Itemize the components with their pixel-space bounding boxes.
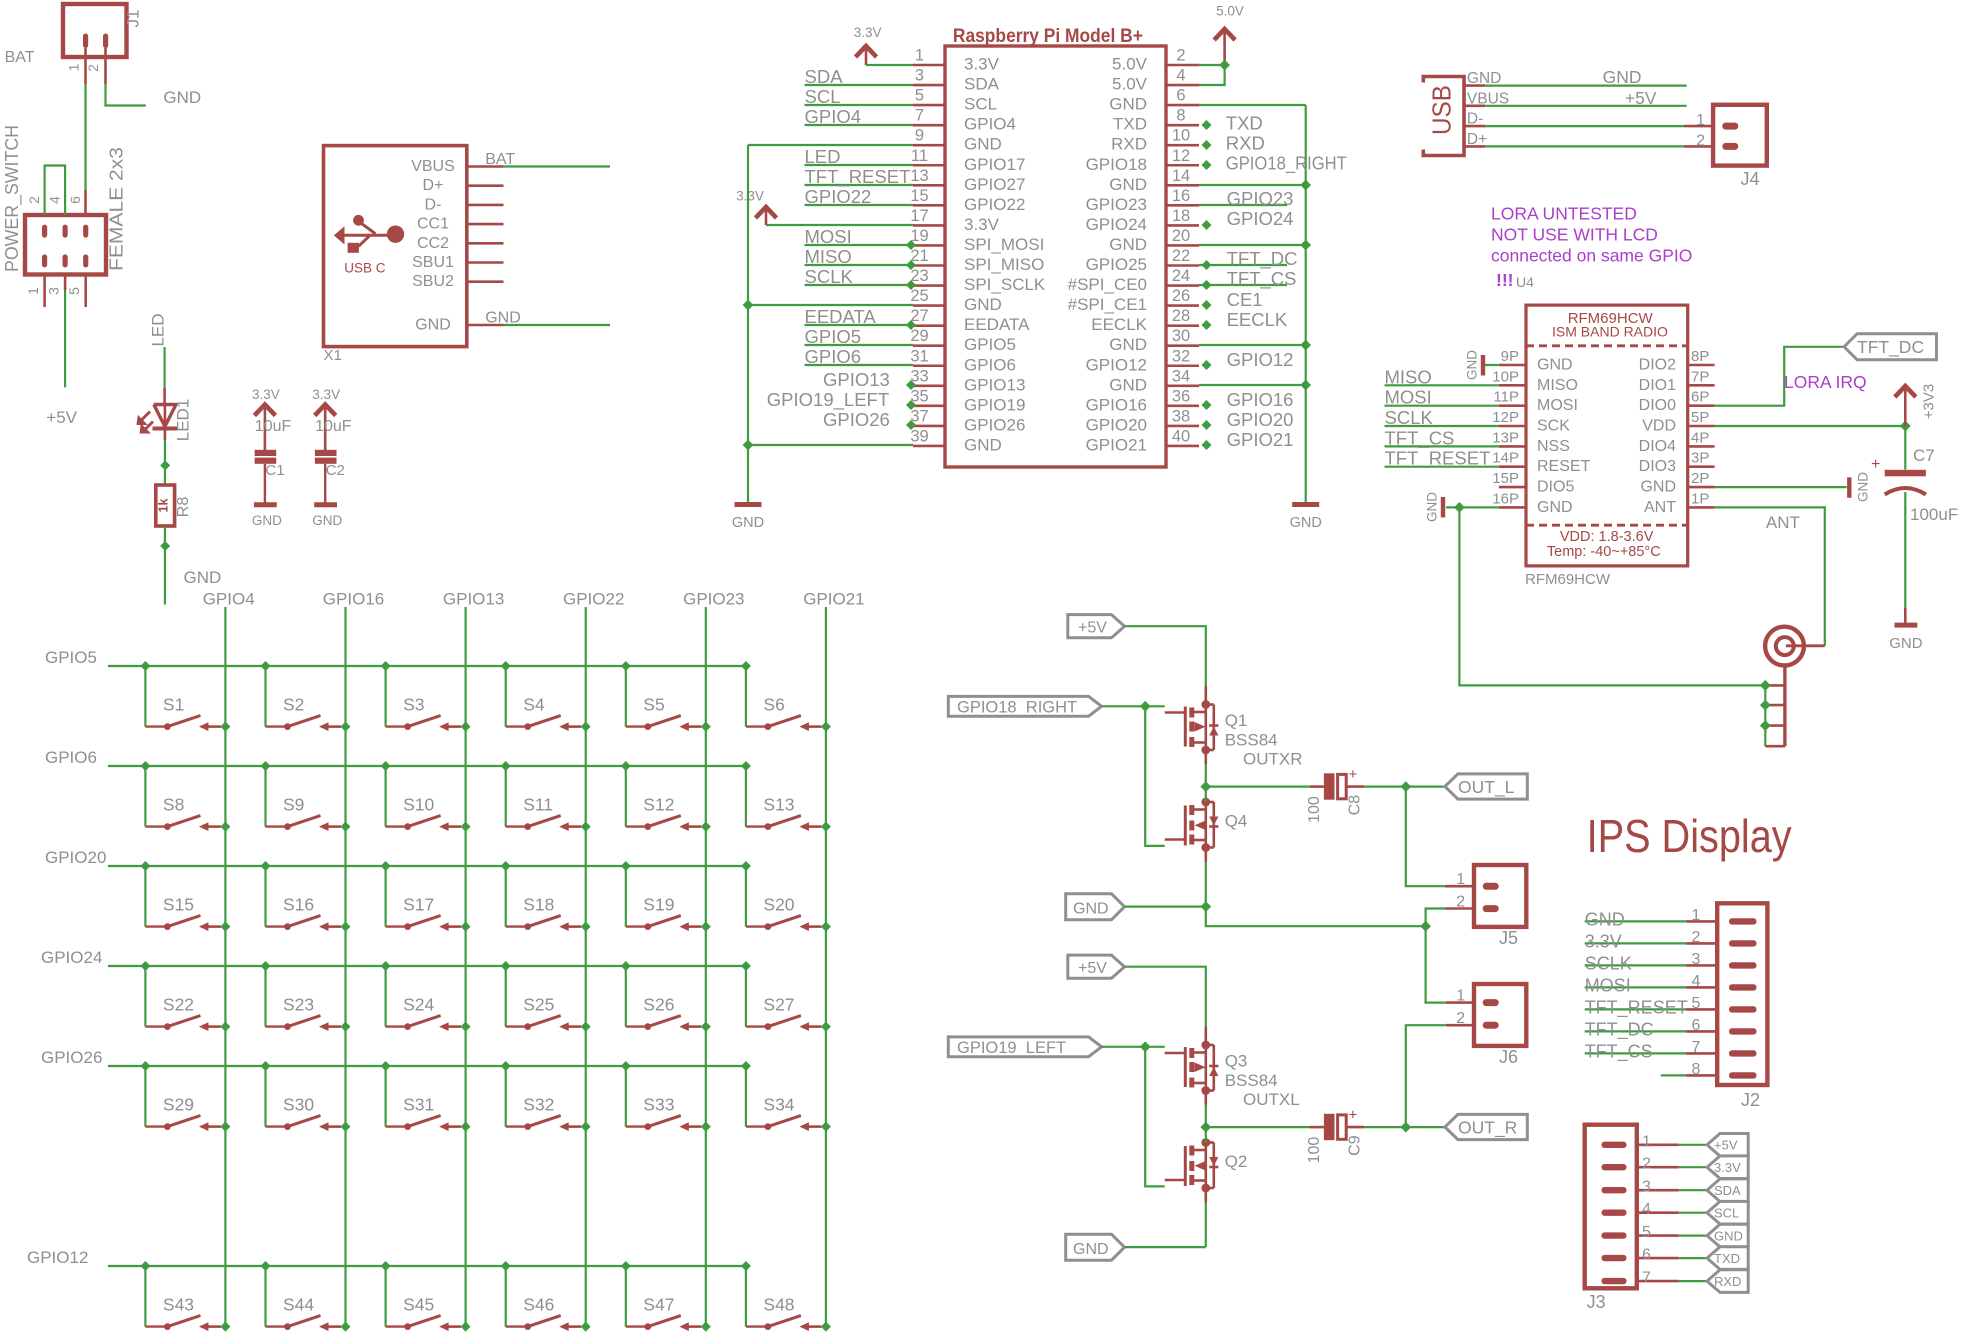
- wire U4 ANT to antenna: [1715, 507, 1825, 645]
- svg-text:S19: S19: [643, 895, 674, 915]
- svg-text:1: 1: [1691, 907, 1700, 924]
- pin J2-6: [1585, 1017, 1718, 1041]
- svg-text:3.3V: 3.3V: [964, 55, 1000, 74]
- svg-text:NOT USE WITH LCD: NOT USE WITH LCD: [1491, 225, 1658, 245]
- pin X1 SBU2: [412, 273, 503, 290]
- wire Q2 source down: [1205, 1188, 1208, 1247]
- wire USB VBUS to +5V: [1485, 88, 1687, 108]
- svg-text:VDD: VDD: [1642, 418, 1676, 435]
- svg-text:GND: GND: [1290, 515, 1322, 531]
- ground at U4 pin 16P: [1425, 492, 1499, 522]
- wire J5 pin2 branch: [1426, 909, 1445, 927]
- svg-text:GND: GND: [964, 295, 1002, 314]
- svg-text:RXD: RXD: [1714, 1274, 1741, 1289]
- svg-text:8P: 8P: [1691, 348, 1709, 365]
- svg-text:GPIO6: GPIO6: [45, 748, 97, 767]
- svg-text:LED1: LED1: [173, 399, 192, 442]
- svg-text:S47: S47: [643, 1295, 674, 1315]
- net label GND at J1: [163, 88, 201, 107]
- wire column GPIO4: [203, 590, 255, 1327]
- pin 3 RPi left: [913, 67, 1000, 94]
- svg-text:GND: GND: [964, 135, 1002, 154]
- ground at C2: [312, 505, 342, 528]
- wire RPi pin9 GND to left bus: [748, 144, 913, 146]
- pin 1 RPi left: [913, 47, 1000, 74]
- svg-text:2: 2: [1176, 47, 1185, 65]
- pin U4 14P RESET: [1492, 450, 1590, 476]
- wire RPi GND pin to right bus: [1199, 384, 1306, 386]
- svg-text:BAT: BAT: [5, 49, 35, 66]
- connector J4: [1696, 105, 1767, 189]
- junction on RPi left pin: [906, 260, 916, 270]
- svg-text:GPIO16: GPIO16: [323, 590, 384, 609]
- wire +5V to Q1: [1125, 626, 1206, 686]
- text IPS Display title: [1587, 810, 1792, 862]
- svg-text:S6: S6: [763, 695, 784, 715]
- xref flag +5V at J3: [1707, 1134, 1748, 1157]
- wire U4 VDD to +3V3: [1715, 421, 1911, 432]
- svg-text:LORA UNTESTED: LORA UNTESTED: [1491, 204, 1637, 224]
- pin U4 16P GND: [1492, 490, 1572, 516]
- svg-text:+3V3: +3V3: [1920, 384, 1937, 419]
- svg-text:S23: S23: [283, 995, 314, 1015]
- svg-text:3.3V: 3.3V: [1714, 1160, 1741, 1175]
- svg-text:2: 2: [1456, 1010, 1465, 1027]
- wire J6 pin1 branch: [1426, 926, 1446, 1002]
- svg-text:S26: S26: [643, 995, 674, 1015]
- wire+net label MISO U4: [1385, 366, 1499, 387]
- pin 8 RPi right: [1113, 107, 1199, 134]
- switch S29: [140, 1061, 230, 1132]
- switch S30: [261, 1061, 351, 1132]
- svg-text:2P: 2P: [1691, 470, 1709, 487]
- pin 27 RPi left: [910, 307, 1030, 334]
- wire OUT_L to J5 pin1: [1406, 787, 1445, 887]
- svg-text:100uF: 100uF: [1910, 505, 1958, 524]
- svg-text:GPIO13: GPIO13: [964, 375, 1025, 394]
- svg-text:S8: S8: [163, 795, 184, 815]
- svg-text:GPIO19_LEFT: GPIO19_LEFT: [767, 389, 889, 411]
- net label +5V: [46, 408, 77, 427]
- svg-text:GPIO27: GPIO27: [964, 175, 1025, 194]
- svg-text:LED: LED: [805, 146, 841, 167]
- svg-text:BSS84: BSS84: [1225, 731, 1278, 750]
- svg-text:5: 5: [66, 287, 82, 295]
- svg-text:USB C: USB C: [344, 261, 386, 276]
- svg-text:7: 7: [1691, 1039, 1700, 1056]
- svg-text:S34: S34: [763, 1095, 794, 1115]
- svg-text:SDA: SDA: [1714, 1183, 1741, 1198]
- pin X1 D-: [425, 196, 504, 213]
- svg-text:GPIO4: GPIO4: [203, 590, 255, 609]
- svg-text:9P: 9P: [1501, 348, 1519, 365]
- pin 38 RPi right: [1086, 407, 1199, 434]
- svg-text:TXD: TXD: [1714, 1251, 1740, 1266]
- svg-text:GND: GND: [1109, 175, 1147, 194]
- svg-text:SCLK: SCLK: [1385, 407, 1434, 428]
- svg-text:+: +: [1349, 766, 1358, 783]
- ground at C1: [252, 505, 282, 528]
- svg-text:7P: 7P: [1691, 368, 1709, 385]
- wire+net label SDA RPi left: [805, 66, 914, 87]
- pin U4 12P SCK: [1492, 409, 1570, 435]
- pin 9 RPi left: [913, 127, 1002, 154]
- switch S4: [501, 661, 591, 732]
- label Q1: [1225, 711, 1303, 769]
- svg-text:GPIO22: GPIO22: [563, 590, 624, 609]
- svg-text:GND: GND: [485, 310, 521, 327]
- svg-text:TFT_DC: TFT_DC: [1857, 337, 1924, 358]
- svg-text:2: 2: [1696, 132, 1705, 149]
- svg-text:GPIO22: GPIO22: [964, 195, 1025, 214]
- svg-text:C7: C7: [1913, 446, 1935, 465]
- switch S3: [381, 661, 471, 732]
- pin X1 GND: [415, 317, 503, 334]
- net label GPIO20 RPi right: [1227, 409, 1294, 430]
- svg-text:2: 2: [1691, 929, 1700, 946]
- svg-text:RXD: RXD: [1226, 133, 1265, 154]
- svg-text:Q1: Q1: [1225, 711, 1248, 730]
- LED LED1: [137, 399, 193, 442]
- svg-text:SBU2: SBU2: [412, 273, 454, 290]
- svg-text:S15: S15: [163, 895, 194, 915]
- wire GND node down-right to J5/J6: [1206, 907, 1426, 927]
- svg-text:GPIO4: GPIO4: [964, 115, 1016, 134]
- svg-text:TFT_CS: TFT_CS: [1385, 427, 1455, 449]
- svg-text:10: 10: [1172, 127, 1190, 145]
- svg-text:6P: 6P: [1691, 389, 1709, 406]
- svg-text:TFT_CS: TFT_CS: [1227, 268, 1297, 290]
- svg-text:GPIO16: GPIO16: [1086, 395, 1147, 414]
- svg-text:2: 2: [26, 196, 42, 204]
- svg-text:1k: 1k: [157, 499, 171, 513]
- pin J2-8: [1661, 1061, 1717, 1078]
- switch S44: [261, 1261, 351, 1332]
- transistor Q3 BSS84: [1165, 1041, 1219, 1095]
- svg-text:28: 28: [1172, 307, 1190, 325]
- wire+net label TFT_CS U4: [1385, 427, 1499, 449]
- svg-text:RESET: RESET: [1537, 458, 1591, 475]
- pin J3-1 to +5V flag: [1637, 1133, 1707, 1150]
- wire +5V to Q3: [1125, 967, 1206, 1027]
- svg-text:OUT_R: OUT_R: [1458, 1118, 1517, 1139]
- svg-text:GND: GND: [1073, 900, 1109, 917]
- capacitor C1: [255, 418, 292, 503]
- svg-text:10P: 10P: [1492, 368, 1519, 385]
- svg-text:S30: S30: [283, 1095, 314, 1115]
- wire+net label EEDATA RPi left: [805, 306, 914, 327]
- junction at RPi right pin: [1202, 280, 1212, 290]
- net label GND below R8: [184, 568, 222, 587]
- svg-text:TXD: TXD: [1226, 113, 1263, 134]
- svg-text:RFM69HCW: RFM69HCW: [1525, 571, 1611, 588]
- net label GPIO26 RPi pin37: [823, 409, 890, 430]
- svg-text:7: 7: [915, 107, 924, 125]
- junction at RPi right pin: [1202, 320, 1212, 330]
- svg-text:TFT_DC: TFT_DC: [1227, 248, 1298, 270]
- wire+net label GPIO6 RPi left: [805, 346, 914, 367]
- svg-text:36: 36: [1172, 387, 1190, 405]
- switch S43: [140, 1261, 230, 1332]
- svg-text:13: 13: [910, 167, 928, 185]
- pin 28 RPi right: [1091, 307, 1199, 334]
- svg-text:3: 3: [46, 287, 62, 295]
- connector USB: [1423, 77, 1464, 156]
- svg-text:SCLK: SCLK: [1585, 953, 1632, 973]
- svg-text:7: 7: [1642, 1270, 1651, 1287]
- svg-text:14P: 14P: [1492, 450, 1519, 467]
- svg-text:1: 1: [1456, 987, 1465, 1004]
- svg-text:C8: C8: [1346, 795, 1363, 816]
- wire RPi pin6 GND to right bus: [1199, 104, 1306, 106]
- svg-text:MOSI: MOSI: [1585, 975, 1631, 995]
- switch S18: [501, 861, 591, 932]
- svg-text:1: 1: [1696, 112, 1705, 129]
- svg-text:9: 9: [915, 127, 924, 145]
- junction at RPi right pin: [1202, 260, 1212, 270]
- svg-text:S16: S16: [283, 895, 314, 915]
- svg-text:GPIO13: GPIO13: [823, 369, 890, 390]
- switch S2: [261, 661, 351, 732]
- svg-text:GND: GND: [1889, 635, 1923, 652]
- ground symbol left of RPi: [732, 505, 764, 532]
- svg-text:22: 22: [1172, 247, 1190, 265]
- svg-text:16P: 16P: [1492, 490, 1519, 507]
- wire+net label GPIO22 RPi left: [805, 186, 914, 207]
- pin J3-5 to GND flag: [1637, 1224, 1707, 1241]
- svg-text:GPIO12: GPIO12: [27, 1248, 88, 1267]
- svg-text:MOSI: MOSI: [1537, 397, 1578, 414]
- svg-text:#SPI_CE1: #SPI_CE1: [1068, 295, 1147, 314]
- svg-text:1: 1: [66, 63, 82, 71]
- svg-text:SDA: SDA: [805, 66, 844, 87]
- switch S34: [741, 1061, 831, 1132]
- pin 26 RPi right: [1068, 287, 1199, 314]
- svg-text:S32: S32: [523, 1095, 554, 1115]
- svg-text:5: 5: [1642, 1224, 1651, 1241]
- svg-text:8: 8: [1176, 107, 1185, 125]
- pin number J1-2: [85, 64, 101, 72]
- pin 24 RPi right: [1068, 267, 1199, 294]
- svg-text:GND: GND: [732, 515, 764, 531]
- svg-text:S43: S43: [163, 1295, 194, 1315]
- svg-text:17: 17: [910, 207, 928, 225]
- wire+net label TFT_RESET RPi left: [805, 166, 914, 188]
- xref flag OUT_R: [1445, 1114, 1527, 1139]
- pin J3-4 to SCL flag: [1637, 1201, 1707, 1218]
- svg-text:GND: GND: [1537, 357, 1573, 374]
- wire column GPIO23: [683, 590, 744, 1327]
- svg-text:U4: U4: [1516, 274, 1534, 290]
- xref flag SDA at J3: [1707, 1179, 1748, 1202]
- svg-text:J6: J6: [1499, 1047, 1518, 1067]
- pin 14 RPi right: [1109, 167, 1199, 194]
- svg-text:C1: C1: [265, 462, 284, 479]
- svg-text:ANT: ANT: [1644, 499, 1676, 516]
- pin 25 RPi left: [910, 287, 1001, 314]
- wire USB D- to J4 pin1: [1485, 125, 1713, 127]
- svg-text:3.3V: 3.3V: [854, 25, 882, 40]
- switch S23: [261, 961, 351, 1032]
- pin 18 RPi right: [1086, 207, 1199, 234]
- svg-text:8: 8: [1691, 1061, 1700, 1078]
- wire C9 to OUT_R: [1346, 1126, 1445, 1129]
- svg-text:34: 34: [1172, 367, 1190, 385]
- svg-text:MOSI: MOSI: [1385, 387, 1432, 408]
- svg-text:GPIO23: GPIO23: [683, 590, 744, 609]
- svg-text:EECLK: EECLK: [1227, 309, 1288, 330]
- wire GND flag to Q4: [1125, 905, 1206, 907]
- svg-text:NSS: NSS: [1537, 438, 1570, 455]
- net label GPIO12 RPi right: [1227, 349, 1294, 370]
- pin U4 13P NSS: [1492, 429, 1570, 455]
- svg-text:S44: S44: [283, 1295, 314, 1315]
- svg-text:VDD: 1.8-3.6V: VDD: 1.8-3.6V: [1560, 529, 1654, 545]
- svg-text:S3: S3: [403, 695, 424, 715]
- net label TFT_CS RPi right: [1199, 268, 1296, 290]
- svg-text:GND: GND: [1714, 1228, 1743, 1243]
- svg-text:SPI_MISO: SPI_MISO: [964, 255, 1044, 274]
- pin J2-3: [1585, 951, 1718, 974]
- svg-text:DIO3: DIO3: [1639, 458, 1676, 475]
- pin 2 RPi right: [1112, 47, 1199, 74]
- wire+net label TFT_RESET U4: [1385, 448, 1499, 470]
- wire row GPIO5: [45, 648, 746, 667]
- pin 20 RPi right: [1109, 227, 1199, 254]
- svg-text:GPIO17: GPIO17: [964, 155, 1025, 174]
- capacitor C7: [1871, 426, 1958, 608]
- svg-text:25: 25: [910, 287, 928, 305]
- svg-text:11: 11: [911, 147, 928, 165]
- svg-text:BSS84: BSS84: [1225, 1071, 1278, 1090]
- junction on RPi left pin: [906, 420, 916, 430]
- transistor Q2 BSS84: [1165, 1138, 1219, 1192]
- svg-text:S22: S22: [163, 995, 194, 1015]
- svg-text:!!!: !!!: [1496, 270, 1513, 290]
- pin U4 3P DIO3: [1639, 450, 1715, 476]
- connector J5: [1445, 865, 1526, 948]
- junction at RPi right pin: [1202, 440, 1212, 450]
- svg-text:DIO2: DIO2: [1639, 357, 1676, 374]
- svg-text:R8: R8: [175, 497, 192, 518]
- pin USB D+: [1464, 131, 1487, 148]
- svg-text:6: 6: [1176, 87, 1185, 105]
- svg-text:1: 1: [25, 287, 41, 295]
- switch S31: [381, 1061, 471, 1132]
- pin 7 RPi left: [913, 107, 1016, 134]
- pin stub POWER_SWITCH 1: [43, 275, 46, 308]
- connector J3: [1585, 1125, 1637, 1312]
- wire RPi GND pin to right bus: [1199, 344, 1306, 346]
- svg-text:39: 39: [910, 427, 928, 445]
- junction on RPi left pin: [906, 380, 916, 390]
- svg-text:GND: GND: [1425, 492, 1440, 522]
- svg-text:D+: D+: [1467, 131, 1487, 148]
- junction at RPi right pin: [1202, 420, 1212, 430]
- svg-text:X1: X1: [324, 347, 342, 364]
- svg-text:31: 31: [910, 347, 928, 365]
- USB icon on X1: [334, 215, 404, 276]
- svg-text:GND: GND: [252, 513, 282, 528]
- text LORA warning: [1491, 204, 1692, 291]
- pin J3-7 to RXD flag: [1637, 1270, 1707, 1287]
- svg-text:GND: GND: [1603, 67, 1642, 87]
- svg-text:11P: 11P: [1493, 389, 1519, 406]
- pin 30 RPi right: [1109, 327, 1199, 354]
- switch S46: [501, 1261, 591, 1332]
- svg-text:GPIO16: GPIO16: [1227, 389, 1294, 410]
- svg-text:Q3: Q3: [1225, 1052, 1248, 1071]
- svg-text:24: 24: [1172, 267, 1190, 285]
- switch S47: [621, 1261, 711, 1332]
- svg-text:S13: S13: [763, 795, 794, 815]
- svg-text:6: 6: [1642, 1247, 1651, 1264]
- svg-text:S17: S17: [403, 895, 434, 915]
- junction on RPi left pin: [906, 240, 916, 250]
- svg-text:D-: D-: [1467, 111, 1483, 128]
- svg-text:D+: D+: [423, 177, 444, 194]
- svg-text:SBU1: SBU1: [412, 254, 454, 271]
- svg-text:40: 40: [1172, 427, 1190, 445]
- svg-text:100: 100: [1306, 796, 1323, 823]
- xref flag OUT_L: [1445, 774, 1527, 799]
- svg-text:GND: GND: [1109, 335, 1147, 354]
- pin U4 6P DIO0: [1639, 389, 1715, 415]
- wire RPi pin39 GND to left bus: [748, 444, 913, 446]
- junction on RPi left pin: [906, 400, 916, 410]
- IC U4 RFM69HCW body: [1525, 305, 1688, 588]
- junction on RPi left pin: [906, 280, 916, 290]
- svg-text:GPIO4: GPIO4: [805, 106, 862, 127]
- svg-text:CC2: CC2: [417, 235, 449, 252]
- pin stub POWER_SWITCH 5: [84, 275, 87, 308]
- wire X1 VBUS to BAT: [485, 151, 610, 168]
- svg-text:GPIO23: GPIO23: [1227, 188, 1294, 209]
- switch S8: [140, 761, 230, 832]
- svg-text:GPIO24: GPIO24: [1086, 215, 1147, 234]
- switch S15: [140, 861, 230, 932]
- svg-text:GPIO18_RIGHT: GPIO18_RIGHT: [957, 698, 1077, 716]
- pin 33 RPi left: [910, 367, 1025, 394]
- IC U-RPi title: [953, 25, 1143, 47]
- connector X1 USB C: [324, 146, 467, 347]
- pin 23 RPi left: [910, 267, 1046, 294]
- wire antenna shell bus: [1760, 680, 1771, 746]
- svg-text:RXD: RXD: [1111, 135, 1147, 154]
- wire node to Q2: [1205, 1127, 1207, 1142]
- svg-text:SPI_SCLK: SPI_SCLK: [964, 275, 1046, 294]
- svg-text:5.0V: 5.0V: [1112, 75, 1148, 94]
- wire U4 DIO0 to TFT_DC flag: [1715, 347, 1845, 406]
- supply 3.3V arrow at C1: [252, 387, 280, 450]
- connector J6: [1446, 984, 1527, 1067]
- wire RPi pin25 GND to left bus: [748, 304, 913, 306]
- pin X1 CC1: [417, 216, 504, 233]
- svg-text:TFT_RESET: TFT_RESET: [805, 166, 911, 188]
- svg-text:GPIO6: GPIO6: [805, 346, 862, 367]
- svg-text:GPIO5: GPIO5: [45, 648, 97, 667]
- switch S17: [381, 861, 471, 932]
- switch S1: [140, 661, 230, 732]
- svg-text:12P: 12P: [1492, 409, 1519, 426]
- wire Q1 source to node: [1205, 750, 1208, 787]
- svg-text:J5: J5: [1499, 928, 1518, 948]
- pin 40 RPi right: [1086, 427, 1199, 454]
- svg-text:Raspberry Pi Model B+: Raspberry Pi Model B+: [953, 25, 1143, 47]
- pin 16 RPi right: [1086, 187, 1199, 214]
- pin 21 RPi left: [910, 247, 1044, 274]
- net label TFT_DC RPi right: [1199, 248, 1298, 270]
